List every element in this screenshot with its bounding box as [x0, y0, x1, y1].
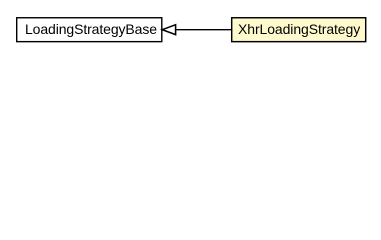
svg-text:LoadingStrategyBase: LoadingStrategyBase — [25, 21, 157, 37]
class box XhrLoadingStrategy — [232, 18, 366, 42]
class box LoadingStrategyBase — [17, 18, 162, 42]
svg-text:XhrLoadingStrategy: XhrLoadingStrategy — [238, 21, 360, 37]
background — [0, 0, 381, 59]
hollow inheritance arrowhead — [162, 25, 175, 35]
wire inheritance line — [176, 29, 232, 31]
